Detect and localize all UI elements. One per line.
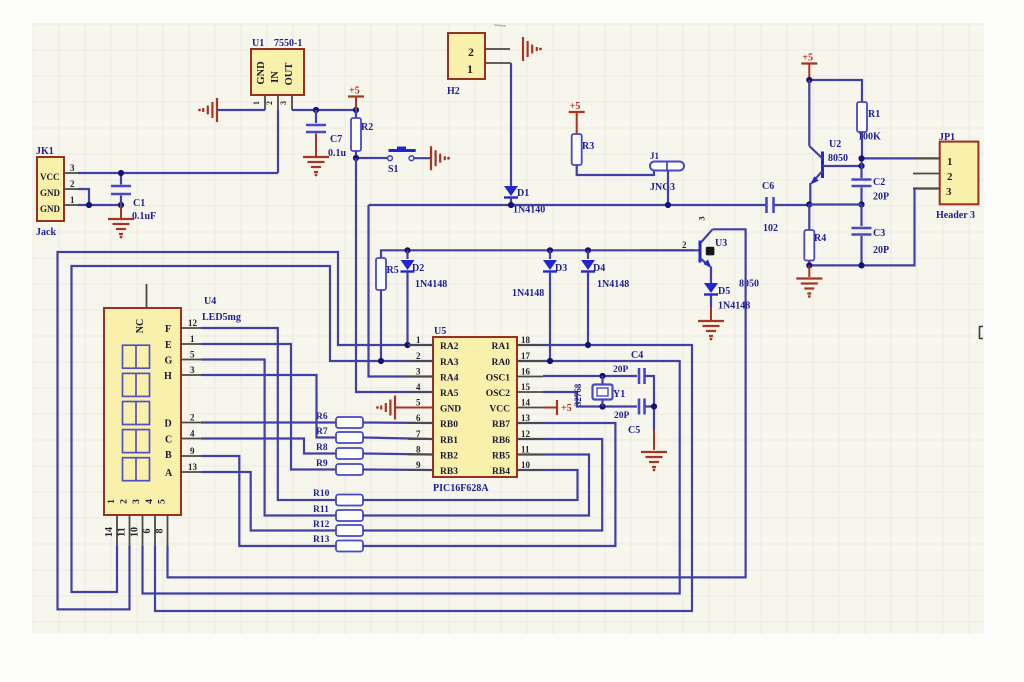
svg-text:R3: R3 bbox=[582, 141, 594, 152]
wire R10 to RB4 bbox=[363, 470, 578, 500]
svg-text:R4: R4 bbox=[814, 233, 826, 244]
svg-text:1N4148: 1N4148 bbox=[597, 279, 629, 290]
capacitor C7 bbox=[306, 110, 347, 159]
svg-text:17: 17 bbox=[521, 351, 531, 361]
power +5 above U2 bbox=[801, 53, 817, 81]
svg-text:0.1u: 0.1u bbox=[328, 148, 347, 159]
display U4 LED5mg bbox=[104, 296, 241, 515]
svg-text:13: 13 bbox=[521, 413, 531, 423]
svg-text:9: 9 bbox=[416, 460, 421, 470]
svg-text:R9: R9 bbox=[316, 459, 328, 469]
diode D4 1N4148 bbox=[581, 250, 629, 345]
resistor R8 bbox=[316, 443, 363, 459]
capacitor C4 20P bbox=[613, 350, 645, 384]
svg-text:7550-1: 7550-1 bbox=[274, 38, 302, 49]
wire JK1 pin2 to pin1 net bbox=[78, 189, 89, 205]
resistor R5 bbox=[376, 258, 399, 361]
svg-text:LED5mg: LED5mg bbox=[202, 312, 241, 323]
svg-text:C3: C3 bbox=[873, 228, 885, 239]
svg-text:GND: GND bbox=[40, 188, 61, 198]
svg-text:12: 12 bbox=[521, 429, 531, 439]
resistor R12 bbox=[313, 520, 363, 536]
svg-text:1: 1 bbox=[947, 156, 953, 168]
resistor R7 bbox=[316, 427, 363, 443]
svg-text:+5: +5 bbox=[570, 101, 581, 112]
svg-text:Header 3: Header 3 bbox=[936, 210, 975, 221]
svg-text:B: B bbox=[165, 450, 172, 461]
svg-text:D4: D4 bbox=[593, 263, 605, 274]
svg-text:6: 6 bbox=[142, 529, 153, 534]
svg-text:3: 3 bbox=[190, 365, 195, 375]
svg-text:11: 11 bbox=[521, 445, 530, 455]
wire node A: R2/S1 down to RA5 bbox=[356, 158, 433, 392]
wire R8 to RB2 bbox=[363, 454, 433, 455]
connector H2 bbox=[447, 25, 511, 97]
svg-text:PIC16F628A: PIC16F628A bbox=[433, 483, 489, 494]
resistor R1 100K bbox=[857, 102, 881, 143]
resistor R4 bbox=[804, 205, 826, 266]
ground left of U1 bbox=[198, 98, 265, 122]
wire OSC2 rail bbox=[543, 392, 637, 410]
wire loop display pin1 to RA3 bbox=[72, 266, 434, 592]
svg-text:+5: +5 bbox=[561, 403, 572, 414]
svg-text:R11: R11 bbox=[313, 505, 329, 515]
resistor R13 bbox=[313, 535, 363, 552]
display bottom pin stubs bbox=[104, 515, 168, 546]
display U4 top NC stub bbox=[146, 284, 148, 308]
wire display A to R12 bbox=[201, 472, 336, 531]
svg-text:RB7: RB7 bbox=[492, 420, 510, 430]
wire bottom rail to JP1 pin3 bbox=[806, 189, 940, 269]
display right pin stubs bbox=[181, 318, 201, 472]
svg-text:RA2: RA2 bbox=[440, 342, 459, 352]
svg-text:20P: 20P bbox=[614, 411, 630, 421]
transistor U2 8050 bbox=[809, 80, 848, 205]
wire display C to R8 bbox=[201, 439, 336, 454]
capacitor C6 bbox=[762, 181, 778, 234]
svg-text:15: 15 bbox=[521, 382, 531, 392]
svg-text:1N4140: 1N4140 bbox=[513, 205, 545, 216]
capacitor C5 20P bbox=[614, 399, 645, 437]
svg-text:2: 2 bbox=[190, 413, 195, 423]
capacitor C3 20P bbox=[852, 205, 890, 266]
ground right of S1 bbox=[431, 146, 450, 170]
svg-text:3: 3 bbox=[946, 186, 952, 198]
svg-text:RA5: RA5 bbox=[440, 389, 459, 399]
wire J1 pin2 down to signal rail bbox=[667, 171, 669, 206]
svg-text:13: 13 bbox=[188, 462, 198, 472]
wire +5 node to R1 bbox=[806, 77, 862, 102]
ground below D5 bbox=[698, 307, 724, 340]
svg-text:R6: R6 bbox=[316, 412, 328, 422]
wire VCC from JK1 pin3 bbox=[78, 172, 278, 174]
svg-text:VCC: VCC bbox=[489, 405, 510, 415]
svg-text:1: 1 bbox=[467, 62, 473, 76]
svg-text:R1: R1 bbox=[868, 109, 880, 120]
wire R6 to RB0 bbox=[363, 421, 433, 424]
jumper J1 JNG3 bbox=[650, 151, 684, 193]
wire R13 to RB7 bbox=[363, 423, 615, 546]
wire loop display pin3 to RA0 bbox=[143, 361, 680, 594]
wire R2 to S1 node bbox=[353, 155, 387, 161]
svg-text:OUT: OUT bbox=[284, 63, 295, 86]
crystal Y1 32768 bbox=[573, 376, 625, 407]
svg-text:14: 14 bbox=[521, 398, 531, 408]
svg-text:4: 4 bbox=[416, 382, 421, 392]
svg-text:9: 9 bbox=[190, 446, 195, 456]
svg-text:C5: C5 bbox=[628, 425, 640, 436]
wire display D to R6 bbox=[201, 421, 336, 423]
svg-text:3: 3 bbox=[132, 499, 142, 504]
junction dots on RA nets bbox=[378, 342, 591, 364]
svg-text:2: 2 bbox=[265, 101, 274, 105]
svg-text:3: 3 bbox=[697, 216, 707, 220]
svg-text:3: 3 bbox=[279, 101, 288, 105]
svg-text:NC: NC bbox=[135, 319, 146, 333]
ground below C7 bbox=[303, 157, 329, 176]
svg-text:5: 5 bbox=[190, 350, 195, 360]
svg-text:2: 2 bbox=[416, 351, 421, 361]
svg-text:C: C bbox=[165, 435, 172, 446]
svg-text:H: H bbox=[164, 371, 172, 382]
svg-text:GND: GND bbox=[440, 405, 461, 415]
svg-text:GND: GND bbox=[40, 204, 61, 214]
svg-text:H2: H2 bbox=[447, 86, 460, 97]
svg-text:GND: GND bbox=[256, 61, 267, 85]
svg-text:1: 1 bbox=[252, 101, 261, 105]
svg-text:2: 2 bbox=[468, 45, 474, 59]
svg-text:C7: C7 bbox=[330, 134, 342, 145]
svg-text:RA1: RA1 bbox=[492, 342, 511, 352]
svg-text:6: 6 bbox=[416, 413, 421, 423]
svg-text:2: 2 bbox=[947, 171, 953, 183]
ground right of H2 pin2 bbox=[523, 37, 542, 61]
wire C6 to U2 emitter node bbox=[774, 204, 810, 206]
ground below C4 C5 bbox=[641, 452, 667, 471]
wire display F to R10 bbox=[201, 328, 336, 500]
wire H2 pin1 down to D1 bbox=[510, 63, 512, 186]
svg-text:5: 5 bbox=[416, 398, 421, 408]
wire display H to R7 bbox=[201, 375, 336, 438]
svg-text:A: A bbox=[165, 468, 173, 479]
wire U3 emitter to D5b bbox=[710, 267, 712, 284]
svg-text:R5: R5 bbox=[387, 265, 399, 276]
wire display G to R11 bbox=[201, 360, 336, 516]
wire U1 IN pin down to VCC rail bbox=[277, 110, 279, 173]
wire signal rail (D1 row) bbox=[369, 202, 767, 208]
svg-text:8: 8 bbox=[416, 445, 421, 455]
svg-text:RB4: RB4 bbox=[492, 467, 510, 477]
svg-text:5: 5 bbox=[157, 499, 167, 504]
svg-text:R2: R2 bbox=[361, 122, 373, 133]
connector JP1 Header 3 bbox=[913, 132, 978, 221]
wire R12 to RB6 bbox=[363, 439, 602, 531]
wire C4 C5 to ground bbox=[645, 376, 658, 450]
wire U1 OUT to +5 node bbox=[292, 107, 359, 113]
wire R11 to RB5 bbox=[363, 455, 589, 516]
svg-text:1N4148: 1N4148 bbox=[415, 279, 447, 290]
wire R7 to RB1 bbox=[363, 438, 433, 440]
svg-text:2: 2 bbox=[682, 240, 687, 250]
wire R3 to J1 bbox=[577, 165, 654, 175]
svg-text:D1: D1 bbox=[517, 188, 529, 199]
svg-text:1: 1 bbox=[70, 195, 75, 205]
svg-text:2: 2 bbox=[70, 179, 75, 189]
svg-text:G: G bbox=[165, 356, 173, 367]
svg-text:1: 1 bbox=[416, 335, 421, 345]
svg-text:RA4: RA4 bbox=[440, 374, 459, 384]
svg-text:RA3: RA3 bbox=[440, 358, 459, 368]
svg-text:U5: U5 bbox=[434, 326, 446, 337]
svg-text:C1: C1 bbox=[133, 198, 145, 209]
svg-text:1N4148: 1N4148 bbox=[718, 301, 750, 312]
svg-text:+5: +5 bbox=[349, 86, 360, 97]
diode D2 1N4148 bbox=[401, 250, 448, 345]
svg-text:Y1: Y1 bbox=[613, 389, 625, 400]
svg-text:1: 1 bbox=[190, 334, 195, 344]
svg-text:J1: J1 bbox=[650, 151, 660, 161]
svg-text:20P: 20P bbox=[613, 365, 629, 375]
svg-text:IN: IN bbox=[270, 71, 281, 83]
wire loop display pin2 to RA2 bbox=[58, 252, 434, 609]
wire display E to R9 bbox=[201, 344, 336, 470]
svg-text:C2: C2 bbox=[873, 177, 885, 188]
svg-text:2: 2 bbox=[119, 499, 129, 504]
svg-text:RB1: RB1 bbox=[440, 436, 458, 446]
svg-text:U2: U2 bbox=[829, 139, 841, 150]
resistor R3 bbox=[572, 134, 595, 165]
wire S1 to ground bbox=[414, 157, 431, 159]
svg-text:8050: 8050 bbox=[828, 153, 848, 164]
svg-text:U4: U4 bbox=[204, 296, 216, 307]
svg-text:RB0: RB0 bbox=[440, 420, 458, 430]
wire R9 to RB3 bbox=[363, 468, 433, 471]
resistor R11 bbox=[313, 505, 363, 521]
svg-text:S1: S1 bbox=[388, 164, 399, 175]
svg-text:RB2: RB2 bbox=[440, 452, 458, 462]
svg-text:1N4148: 1N4148 bbox=[512, 288, 544, 299]
resistor R9 bbox=[316, 459, 363, 475]
svg-text:RB5: RB5 bbox=[492, 452, 510, 462]
resistor R2 bbox=[351, 110, 373, 158]
resistor R6 bbox=[316, 412, 363, 428]
svg-text:D: D bbox=[165, 419, 172, 430]
capacitor C2 20P bbox=[852, 166, 890, 205]
svg-text:20P: 20P bbox=[873, 245, 889, 256]
diode D1 1N4140 bbox=[504, 186, 545, 216]
ground at U5 pin5 bbox=[376, 396, 433, 420]
svg-text:R8: R8 bbox=[316, 443, 328, 453]
resistor R10 bbox=[313, 489, 363, 506]
svg-text:OSC2: OSC2 bbox=[486, 389, 511, 399]
svg-text:JK1: JK1 bbox=[36, 146, 54, 157]
ground below R4 bbox=[796, 265, 822, 298]
svg-text:4: 4 bbox=[145, 499, 155, 504]
svg-text:C6: C6 bbox=[762, 181, 774, 192]
svg-text:D5: D5 bbox=[718, 286, 730, 297]
wire JK1 pin1 to C1 bbox=[78, 202, 124, 208]
svg-text:0.1uF: 0.1uF bbox=[132, 211, 156, 222]
svg-text:E: E bbox=[165, 340, 172, 351]
wire loop display pin4 to RA1 bbox=[155, 345, 692, 611]
svg-text:R12: R12 bbox=[313, 520, 330, 530]
power +5 at U5 VCC pin14 bbox=[543, 400, 572, 415]
diode D3 1N4148 bbox=[512, 250, 567, 361]
wire rail corner down to RA4 bbox=[369, 205, 434, 377]
svg-text:10: 10 bbox=[521, 460, 531, 470]
svg-text:10: 10 bbox=[130, 527, 141, 537]
diode rail (D2 D3 D4 row) bbox=[381, 247, 694, 258]
wire display B to R13 bbox=[201, 456, 336, 546]
power +5 above R3 bbox=[569, 101, 585, 134]
svg-text:8: 8 bbox=[155, 529, 166, 534]
svg-text:R7: R7 bbox=[316, 427, 328, 437]
wire R1 to base node bbox=[861, 132, 863, 158]
wire emitter node junctions bbox=[806, 201, 864, 207]
svg-text:VCC: VCC bbox=[40, 172, 60, 182]
svg-text:D2: D2 bbox=[412, 263, 424, 274]
svg-text:JP1: JP1 bbox=[939, 132, 955, 143]
svg-text:OSC1: OSC1 bbox=[486, 374, 511, 384]
diode D5 1N4148 bbox=[704, 283, 750, 312]
wire U3 collector loop to display pin5 bbox=[168, 229, 746, 577]
transistor U3 8050 bbox=[640, 216, 759, 289]
svg-text:U3: U3 bbox=[715, 238, 727, 249]
svg-text:R10: R10 bbox=[313, 489, 330, 499]
svg-text:RB3: RB3 bbox=[440, 467, 458, 477]
switch S1 bbox=[388, 147, 416, 176]
svg-text:8050: 8050 bbox=[739, 279, 759, 290]
svg-text:C4: C4 bbox=[631, 350, 643, 361]
svg-text:16: 16 bbox=[521, 367, 531, 377]
svg-text:14: 14 bbox=[104, 527, 115, 537]
svg-text:4: 4 bbox=[190, 429, 195, 439]
capacitor C1 bbox=[111, 170, 156, 222]
wire OSC1 rail bbox=[543, 373, 637, 379]
svg-text:12: 12 bbox=[188, 318, 198, 328]
svg-text:11: 11 bbox=[117, 527, 128, 536]
sheet margin mark bbox=[980, 327, 984, 339]
svg-text:Jack: Jack bbox=[36, 227, 56, 238]
svg-text:+5: +5 bbox=[802, 53, 813, 64]
svg-text:7: 7 bbox=[416, 429, 421, 439]
svg-text:D3: D3 bbox=[555, 263, 567, 274]
svg-text:1: 1 bbox=[107, 499, 117, 504]
svg-text:JNG3: JNG3 bbox=[650, 182, 675, 193]
svg-text:RA0: RA0 bbox=[492, 358, 511, 368]
svg-text:18: 18 bbox=[521, 335, 531, 345]
svg-text:3: 3 bbox=[416, 367, 421, 377]
wire U2 base to R1 node and JP1 pin1 bbox=[823, 155, 940, 169]
ground below C1 bbox=[108, 205, 134, 238]
power +5 above R2 bbox=[348, 86, 364, 111]
svg-text:U1: U1 bbox=[252, 38, 264, 49]
svg-text:102: 102 bbox=[763, 223, 778, 234]
svg-text:F: F bbox=[165, 324, 171, 335]
svg-text:3: 3 bbox=[70, 163, 75, 173]
regulator U1 7550-1 bbox=[251, 38, 304, 110]
connector JK1 (Jack) bbox=[36, 146, 78, 238]
svg-text:R13: R13 bbox=[313, 535, 330, 545]
microcontroller U5 PIC16F628A bbox=[408, 326, 543, 494]
svg-text:32768: 32768 bbox=[573, 383, 583, 406]
svg-text:20P: 20P bbox=[873, 192, 889, 203]
svg-text:RB6: RB6 bbox=[492, 436, 510, 446]
